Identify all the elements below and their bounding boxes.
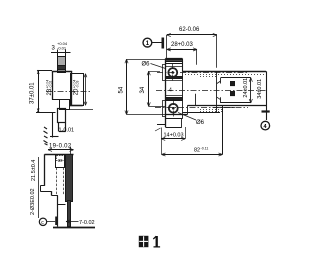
svg-text:2-Ø3E0.02: 2-Ø3E0.02 (30, 188, 36, 215)
svg-text:4: 4 (169, 88, 172, 94)
svg-text:-0.02: -0.02 (49, 81, 53, 89)
svg-text:19-0.02: 19-0.02 (49, 144, 72, 150)
svg-text:Ø6: Ø6 (142, 62, 151, 68)
svg-text:28+0.03: 28+0.03 (171, 42, 194, 48)
svg-text:-0.11: -0.11 (201, 147, 209, 151)
svg-text:1-0.01: 1-0.01 (59, 128, 75, 134)
svg-text:-0.03: -0.03 (76, 80, 80, 88)
svg-text:37±0.01: 37±0.01 (30, 82, 36, 104)
svg-text:21.5±0.4: 21.5±0.4 (31, 160, 37, 181)
svg-text:34: 34 (140, 86, 146, 93)
svg-text:82: 82 (194, 148, 200, 154)
svg-text:30: 30 (58, 158, 63, 163)
svg-text:-0.01: -0.01 (57, 46, 67, 51)
svg-text:24±0.01: 24±0.01 (243, 78, 249, 98)
svg-text:62-0.06: 62-0.06 (179, 27, 200, 33)
svg-text:7-0.02: 7-0.02 (79, 220, 95, 226)
svg-text:3: 3 (52, 46, 56, 52)
svg-text:Ø6: Ø6 (196, 120, 205, 126)
svg-text:54: 54 (119, 86, 125, 93)
svg-text:34±0.01: 34±0.01 (257, 79, 263, 99)
svg-text:14+0.03: 14+0.03 (164, 133, 184, 139)
